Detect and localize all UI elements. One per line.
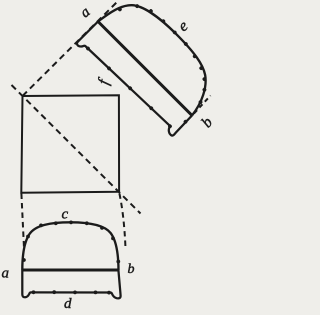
dashed projector, left, square bottom-left corner down to elevation arch [21,194,24,249]
square (plan view) [21,95,119,193]
dashed projector, right, square bottom-right corner down to elevation arch [119,194,125,247]
dashed stub at b, perpendicular to section base [194,96,211,114]
paper background [0,0,216,315]
dashed diagonal of square, extended beyond both corners [12,85,141,214]
dots on section tray f [85,34,188,137]
dots on elevation tray d [32,290,111,294]
lower edges and tray f of section [76,22,193,139]
svg-text:c: c [62,207,69,223]
dots on elevation arch c [22,221,120,264]
dots on section arch e [111,0,225,105]
lower edges and tray d of elevation [22,270,120,298]
dashed projector from square top-left corner through a, to top edge [23,1,119,96]
arch outline c of elevation [22,222,118,270]
arch outline e of section [98,0,225,115]
svg-text:b: b [128,262,135,277]
thick base line a-b of elevation [22,269,118,272]
svg-text:a: a [2,266,10,282]
svg-text:d: d [64,296,72,312]
thick base line a-b of section [98,22,192,116]
